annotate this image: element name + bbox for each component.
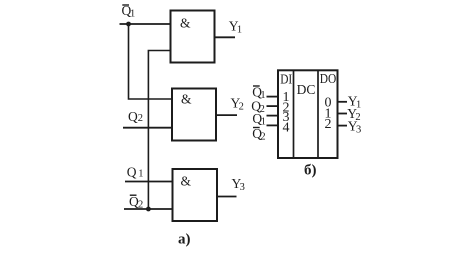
svg-text:4: 4 — [283, 120, 290, 135]
label DO (decoder output field) — [320, 71, 337, 86]
svg-text:1: 1 — [130, 9, 135, 20]
wire: stub to decoder pin 2 — [267, 105, 279, 107]
label a) sub-figure caption — [178, 232, 191, 248]
pin 2 (DO) — [325, 117, 332, 132]
svg-text:б): б) — [304, 163, 317, 179]
svg-text:3: 3 — [356, 125, 361, 136]
wire: Q1bar input line to gate U1 — [120, 23, 171, 25]
pin 1 (DI) — [283, 90, 290, 105]
label Y2 (decoder output net) — [347, 106, 360, 123]
label Y2 (output net) — [231, 96, 244, 113]
svg-text:&: & — [180, 16, 191, 31]
label Y3 (output net) — [232, 176, 245, 193]
label Y1 (decoder output net) — [348, 94, 361, 111]
wire: Q2bar input line to gate U3 — [124, 208, 173, 210]
svg-text:Q: Q — [127, 165, 137, 180]
pin 2 (DI) — [283, 100, 290, 115]
svg-text:Q: Q — [128, 109, 138, 124]
svg-text:а): а) — [178, 232, 191, 248]
label Y3 (decoder output net) — [348, 119, 361, 136]
wire: stub to decoder pin 1 — [267, 96, 279, 98]
svg-text:1: 1 — [260, 90, 265, 101]
svg-text:DO: DO — [320, 71, 337, 86]
label Q2 (decoder input net) — [251, 99, 265, 116]
label Q1 (input net) — [127, 165, 144, 180]
wire: Q1 input line to gate U3 — [125, 181, 173, 183]
wire: decoder output stub 1 — [338, 113, 348, 115]
node: junction on Q1bar line — [126, 22, 131, 27]
svg-text:2: 2 — [239, 102, 244, 113]
svg-text:2: 2 — [325, 117, 332, 132]
label Q1 (decoder input net) — [252, 111, 266, 128]
wire: gate U1 second input branch from Q2bar line — [148, 51, 170, 210]
wire: stub to decoder pin 3 — [267, 115, 279, 117]
label DC (decoder) — [297, 83, 316, 98]
wire: Q2 input line to gate U2 — [123, 127, 172, 129]
wire: decoder output stub 0 — [338, 101, 348, 103]
wire: U2 output to Y2 — [216, 114, 237, 116]
svg-text:2: 2 — [260, 132, 265, 143]
label b) sub-figure caption — [304, 163, 317, 179]
svg-text:&: & — [181, 174, 192, 189]
wire: U3 output to Y3 — [217, 196, 237, 198]
label Q2bar (decoder input net) — [252, 126, 265, 143]
label Y1 (output net) — [229, 19, 242, 36]
gate U2 (2-input AND, output Y2) — [172, 89, 216, 141]
pin 1 (DO) — [325, 106, 332, 121]
decoder divider DI/DC — [293, 70, 295, 158]
pin 3 (DI) — [283, 110, 290, 125]
gate U3 (2-input AND, output Y3) — [173, 169, 218, 221]
node: junction on Q2bar line — [146, 207, 151, 212]
svg-text:2: 2 — [138, 113, 143, 124]
label Q2 (input net) — [128, 109, 143, 124]
pin 0 (DO) — [325, 95, 332, 110]
svg-text:DC: DC — [297, 83, 316, 98]
label Q1bar (decoder input net) — [252, 84, 265, 101]
label DI (decoder input field) — [280, 72, 292, 87]
svg-text:1: 1 — [138, 169, 143, 180]
decoder divider DC/DO — [317, 70, 319, 158]
svg-text:1: 1 — [237, 25, 242, 36]
wire: stub to decoder pin 4 — [267, 124, 279, 126]
decoder DD1 body — [278, 70, 338, 158]
svg-text:DI: DI — [280, 72, 292, 87]
wire: branch from Q1bar junction down to gate U2 input — [129, 24, 173, 99]
wire: decoder output stub 2 — [338, 125, 348, 127]
wire: U1 output to Y1 — [215, 36, 236, 38]
svg-text:3: 3 — [240, 182, 245, 193]
gate U1 (2-input AND, output Y1) — [171, 11, 215, 63]
pin 4 (DI) — [283, 120, 290, 135]
label Q1bar (input net) — [122, 3, 136, 20]
svg-text:&: & — [181, 92, 192, 107]
label Q2bar (input net) — [129, 194, 143, 211]
